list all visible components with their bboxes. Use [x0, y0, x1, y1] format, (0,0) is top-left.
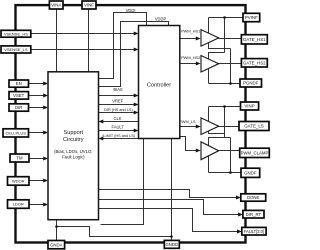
wire ILIMIT bus — [103, 138, 139, 140]
wire DIR(HS,LS) bus — [99, 112, 135, 114]
wire T2 bottom riser — [208, 69, 210, 84]
wire FAULT out — [99, 209, 238, 232]
wire VREF bus — [99, 104, 135, 106]
wire PWM_LS — [180, 126, 197, 128]
pin box PWM_CLAMP — [240, 148, 270, 157]
arrowhead FAULT — [134, 129, 139, 133]
wire PVINF-PGNDF rail — [230, 49, 232, 84]
arrowhead PWM_CLAMP — [196, 149, 201, 153]
wire VDDP net — [99, 22, 169, 87]
wire VINF riser — [88, 9, 90, 72]
svg-text:VSET: VSET — [13, 93, 25, 98]
wire HS mid rail — [224, 18, 226, 53]
svg-text:VDDP: VDDP — [155, 17, 167, 22]
wire BIAS bus — [99, 95, 135, 97]
svg-text:PWM_CLAMP: PWM_CLAMP — [241, 151, 269, 156]
svg-text:VINA: VINA — [51, 3, 61, 8]
svg-text:PWM_HS2: PWM_HS2 — [181, 55, 200, 60]
block U1 Support Circuitry — [48, 72, 99, 220]
svg-text:GATE_HS2: GATE_HS2 — [243, 61, 266, 66]
pin box VSENSE_LS — [1, 46, 31, 53]
svg-text:DIR (HS and LS): DIR (HS and LS) — [104, 108, 133, 112]
wire EN arrow — [29, 83, 45, 85]
svg-text:ILIMIT (HS and LS): ILIMIT (HS and LS) — [102, 134, 135, 138]
pin box GATE_HS1 — [241, 35, 267, 44]
svg-text:PWM_HS1: PWM_HS1 — [181, 28, 200, 33]
arrowhead DIR bus — [134, 111, 139, 115]
wire DONE — [99, 190, 237, 198]
wire VINP feed — [209, 106, 241, 108]
svg-text:FAULT: FAULT — [111, 125, 124, 130]
pin box VINA — [49, 1, 63, 9]
svg-text:GNDF: GNDF — [244, 171, 257, 176]
pin box TM — [10, 154, 29, 162]
arrowhead LDOR — [43, 203, 48, 207]
pin box VINP — [241, 102, 259, 110]
wire PWM_CLAMP feed — [180, 137, 197, 151]
wire FAULT bus — [99, 130, 135, 132]
wire T3 top supply — [208, 107, 210, 122]
wire VINA riser — [56, 9, 58, 72]
wire T4 top step — [209, 138, 231, 146]
wire GNDD riser — [171, 139, 173, 241]
arrowhead CELLPLUS — [43, 131, 48, 135]
svg-text:GNDD: GNDD — [165, 242, 178, 247]
pin box PVINF — [243, 13, 260, 21]
arrowhead DIR_RT — [238, 213, 243, 217]
wire VSET arrow — [29, 95, 45, 97]
arrowhead VSET — [43, 94, 48, 98]
svg-text:GNDA: GNDA — [50, 242, 63, 247]
node GNDF junction — [229, 171, 232, 174]
wire PGNDF line — [209, 83, 241, 85]
svg-text:WDOR: WDOR — [12, 179, 25, 184]
svg-text:Fault Logic): Fault Logic) — [62, 155, 85, 160]
wire ring bus (thick outer loop) — [16, 5, 246, 242]
wire VINP-GNDF rail — [230, 138, 232, 173]
arrowhead CLK — [99, 120, 104, 124]
wire GNDA-GNDD link — [57, 227, 172, 237]
svg-text:GATE_LS: GATE_LS — [244, 124, 264, 129]
wire CLK bus — [103, 121, 139, 123]
wire DIR arrow — [29, 107, 45, 109]
svg-text:VREF: VREF — [112, 98, 123, 103]
wire CELLPLUS arrow — [29, 132, 45, 134]
wire GATE_HS1 out — [219, 38, 242, 40]
arrowhead DIR — [43, 106, 48, 110]
arrowhead EN — [43, 82, 48, 86]
wire VDDI net — [99, 13, 147, 79]
wire T3 bottom step — [209, 131, 225, 134]
wire VSENSE_HS to controller — [31, 33, 135, 35]
wire controller stub — [101, 139, 144, 225]
svg-text:FAULT[2:0]: FAULT[2:0] — [244, 229, 264, 234]
arrowhead DONE — [236, 196, 241, 200]
arrowhead PWM_HS1 — [196, 37, 201, 41]
wire WDOR arrow — [29, 180, 45, 182]
arrowhead ILIMIT — [99, 137, 104, 141]
node GNDD junction — [170, 235, 173, 238]
arrowhead VSENSE_HS — [134, 32, 139, 36]
pin box DIR_RT — [243, 210, 264, 218]
svg-text:Circuitry: Circuitry — [63, 137, 84, 143]
pin box GNDD — [164, 240, 179, 248]
pin box CELLPLUS — [3, 129, 29, 137]
wire TM arrow — [29, 158, 45, 160]
wire LS mid rail — [224, 107, 226, 138]
svg-text:VDDI: VDDI — [126, 8, 136, 13]
svg-text:DONE: DONE — [247, 195, 260, 200]
svg-text:LDOR: LDOR — [13, 202, 24, 207]
svg-text:DIR: DIR — [15, 105, 22, 110]
wire T4 bottom riser — [208, 157, 210, 173]
pin box VSET — [9, 92, 29, 100]
node VINP junction — [223, 105, 226, 108]
op-amp driver T3 GATE_LS — [201, 118, 219, 135]
arrowhead TM — [43, 157, 48, 161]
pin box GATE_HS2 — [241, 59, 267, 67]
svg-text:TM: TM — [16, 156, 23, 161]
svg-text:EN: EN — [16, 81, 22, 86]
arrowhead BIAS — [134, 94, 139, 98]
pin box DONE — [241, 194, 266, 201]
arrowhead VREF — [134, 103, 139, 107]
pin box GNDF — [241, 168, 260, 177]
wire GNDF line — [209, 172, 241, 174]
block U2 Controller — [139, 26, 180, 139]
arrowhead PWM_HS2 — [196, 62, 201, 66]
svg-text:(Bias, LDOs, UVLO,: (Bias, LDOs, UVLO, — [54, 149, 92, 154]
wire GNDA riser — [56, 220, 58, 241]
node PGNDF junction — [229, 82, 232, 85]
svg-text:PWM_LS: PWM_LS — [179, 119, 196, 124]
node GNDA junction — [55, 225, 58, 228]
pin box VSENSE_HS — [1, 30, 31, 37]
wire T2 top step — [209, 53, 225, 60]
pin box GATE_LS — [239, 122, 269, 131]
wire VSENSE_LS to controller — [31, 49, 135, 51]
pin box VINF — [82, 1, 96, 9]
node HS supply junction — [223, 16, 226, 19]
svg-text:VINP: VINP — [244, 104, 254, 109]
arrowhead VSENSE_LS — [134, 48, 139, 52]
svg-text:VINF: VINF — [84, 3, 94, 8]
svg-text:Support: Support — [64, 130, 84, 136]
pin box LDOR — [8, 200, 30, 209]
arrowhead PWM_LS — [196, 125, 201, 129]
wire PWM_HS1 — [180, 38, 197, 40]
svg-text:VSENSE_LS: VSENSE_LS — [4, 47, 28, 52]
svg-text:CELLPLUS: CELLPLUS — [5, 131, 26, 136]
wire LDOR arrow — [29, 204, 45, 206]
pin box EN — [9, 80, 29, 87]
pin box DIR — [9, 104, 29, 111]
wire PWM_CLAMP out — [219, 150, 240, 152]
wire T1 bottom step — [209, 43, 231, 49]
op-amp driver T2 GATE_HS2 — [201, 56, 219, 73]
arrowhead WDOR — [43, 179, 48, 183]
svg-text:PGNDF: PGNDF — [243, 81, 259, 86]
wire GATE_LS out — [219, 126, 239, 128]
svg-text:PVINF: PVINF — [245, 15, 258, 20]
svg-text:VSENSE_HS: VSENSE_HS — [4, 31, 28, 36]
op-amp driver T1 GATE_HS1 — [201, 30, 219, 46]
pin box FAULT[2:0] — [242, 227, 266, 235]
wire PVINF feed — [209, 17, 243, 19]
wire T1 top supply — [208, 18, 210, 34]
wire PWM_HS2 — [180, 63, 197, 65]
svg-text:Controller: Controller — [147, 82, 171, 88]
svg-text:DIR_RT: DIR_RT — [246, 212, 262, 217]
arrowhead FAULT[2:0] — [237, 230, 242, 234]
pin box PGNDF — [240, 79, 262, 87]
pin box WDOR — [8, 177, 30, 186]
svg-text:BIAS: BIAS — [113, 87, 123, 92]
svg-text:CLK: CLK — [114, 116, 122, 121]
svg-text:GATE_HS1: GATE_HS1 — [243, 37, 266, 42]
pin box GNDA — [48, 241, 65, 249]
wire DIR_RT — [99, 200, 239, 215]
op-amp driver T4 PWM_CLAMP — [201, 142, 219, 160]
wire GATE_HS2 out — [219, 63, 242, 65]
